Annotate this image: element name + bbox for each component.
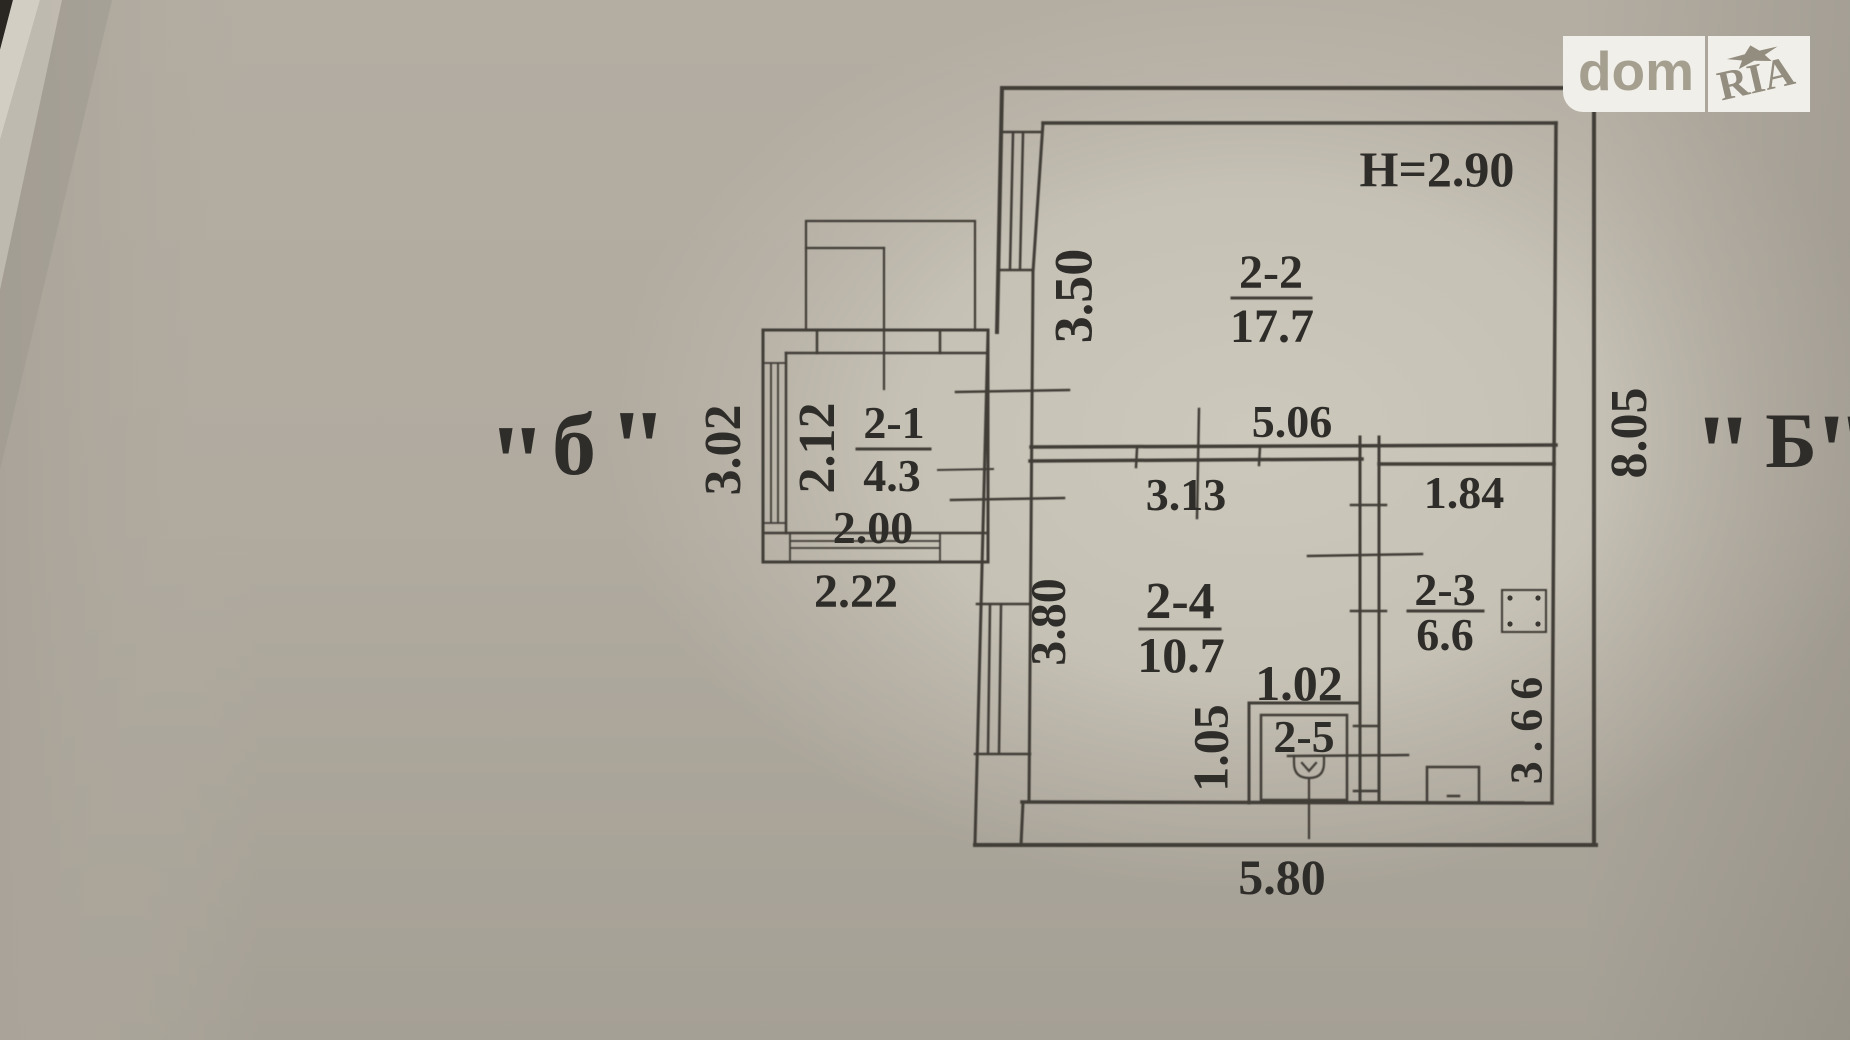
svg-text:2.22: 2.22 [814, 565, 898, 618]
svg-text:1.05: 1.05 [1182, 704, 1238, 792]
svg-text:H=2.90: H=2.90 [1360, 141, 1515, 197]
fraction bar room 2-2 [1232, 297, 1311, 300]
door opening tick upper (balcony to flat) [956, 390, 1069, 392]
dimension tick long centre [1197, 409, 1199, 518]
svg-text:dom: dom [1578, 40, 1694, 102]
bottom inner wall of rooms [1022, 802, 1552, 803]
wall: outer right of apartment [1592, 88, 1596, 845]
fraction bar room 2-1 [857, 448, 930, 451]
balcony railing rectangle above [806, 221, 975, 330]
balcony inner bottom line [763, 532, 988, 535]
svg-text:8.05: 8.05 [1601, 388, 1658, 479]
toilet tank in room 2-3 [1427, 767, 1479, 803]
room 2-2 left wall [1033, 123, 1043, 272]
door jamb 2-5 upper [1354, 725, 1379, 728]
svg-text:17.7: 17.7 [1230, 300, 1314, 353]
dark photo corner top-left [0, 0, 13, 50]
svg-text:": " [487, 404, 547, 523]
door tick room 2-5 y757 [1288, 755, 1408, 756]
soft smudge band top-left [0, 0, 112, 470]
wall: outer bottom of apartment [975, 843, 1596, 847]
svg-text:3.50: 3.50 [1043, 249, 1103, 344]
svg-text:6.6: 6.6 [1416, 609, 1474, 660]
wider light wedge top-left [0, 0, 62, 290]
balcony top window end caps [817, 330, 940, 353]
opening tick long y555 [1308, 554, 1422, 556]
watermark word RIA [1713, 48, 1799, 110]
svg-text:2.12: 2.12 [789, 403, 846, 494]
dimension tick right short [1259, 447, 1260, 465]
svg-text:": " [608, 389, 668, 508]
fraction bar room 2-3 [1408, 610, 1483, 613]
sink in room 2-5 [1294, 756, 1324, 838]
window of room 2-2 on left wall [999, 132, 1041, 270]
svg-text:4.3: 4.3 [863, 450, 921, 501]
room 2-2 bottom wall [1031, 445, 1556, 447]
room 2-2 top wall [1043, 121, 1556, 125]
room 2-5 outer box top [1249, 702, 1360, 705]
svg-text:Б: Б [1765, 397, 1817, 484]
svg-text:б: б [552, 397, 596, 494]
dots of ventilation box [1507, 595, 1540, 626]
watermark ria box [1708, 36, 1810, 112]
room 2-5 inner box [1261, 715, 1347, 800]
wall between hall and room 2-3 right line [1378, 437, 1381, 802]
svg-text:1.84: 1.84 [1424, 467, 1505, 518]
wall: outer left lower segment [975, 332, 988, 843]
opening tick on wall y505 [1351, 504, 1386, 507]
svg-text:5.06: 5.06 [1252, 396, 1333, 447]
dimension tick left short [1136, 449, 1137, 467]
balcony bottom window glazing [790, 533, 940, 562]
svg-text:3.66: 3.66 [1501, 668, 1552, 785]
door opening tick lower (balcony to flat) [951, 498, 1064, 500]
paper glow centre [605, 0, 1850, 890]
window of room 2-4 on left wall [975, 604, 1030, 754]
svg-text:2-3: 2-3 [1414, 564, 1475, 615]
balcony left window glazing [763, 363, 786, 523]
opening tick on wall y611 [1351, 610, 1386, 613]
svg-text:3.80: 3.80 [1019, 578, 1075, 666]
watermark dom box [1563, 36, 1705, 112]
room 2-3 right wall [1552, 464, 1554, 803]
left darker band [0, 0, 260, 1040]
svg-text:2.00: 2.00 [833, 502, 914, 553]
ventilation box in room 2-3 [1502, 590, 1546, 632]
svg-text:3.13: 3.13 [1146, 469, 1227, 520]
svg-text:2-5: 2-5 [1273, 711, 1334, 762]
wall: inner face of left wall [1029, 272, 1033, 802]
svg-text:2-1: 2-1 [863, 397, 924, 448]
balcony outer box [763, 330, 988, 562]
door jamb 2-5 lower [1354, 790, 1379, 793]
wall connector bottom left [1021, 802, 1023, 845]
svg-text:": " [1692, 392, 1753, 514]
svg-text:2-2: 2-2 [1239, 246, 1303, 299]
right darker band [1580, 0, 1850, 1040]
wall: outer left upper segment [997, 88, 1002, 332]
room 2-5 outer box left [1248, 703, 1251, 803]
svg-text:5.80: 5.80 [1238, 849, 1326, 905]
light paper edge band top-left [0, 0, 40, 140]
svg-text:3.02: 3.02 [695, 405, 752, 496]
svg-text:2-4: 2-4 [1145, 573, 1214, 630]
svg-text:1.02: 1.02 [1255, 655, 1343, 711]
leader line to room 2-1 label [883, 248, 885, 389]
svg-text:10.7: 10.7 [1137, 627, 1225, 683]
svg-text:": " [1812, 391, 1850, 513]
wall: outer top of apartment [1002, 86, 1594, 90]
fraction bar room 2-4 [1140, 628, 1220, 631]
wall between hall and room 2-3 left line [1359, 437, 1362, 802]
watermark star [1725, 39, 1780, 71]
corridor top wall [1030, 459, 1362, 461]
small tick inside balcony right [938, 469, 993, 470]
balcony inner left line [785, 353, 788, 533]
room 2-2 right wall [1554, 123, 1556, 464]
room 2-3 top wall [1379, 462, 1552, 466]
railing inner line [806, 247, 884, 249]
balcony inner top line [786, 352, 988, 355]
